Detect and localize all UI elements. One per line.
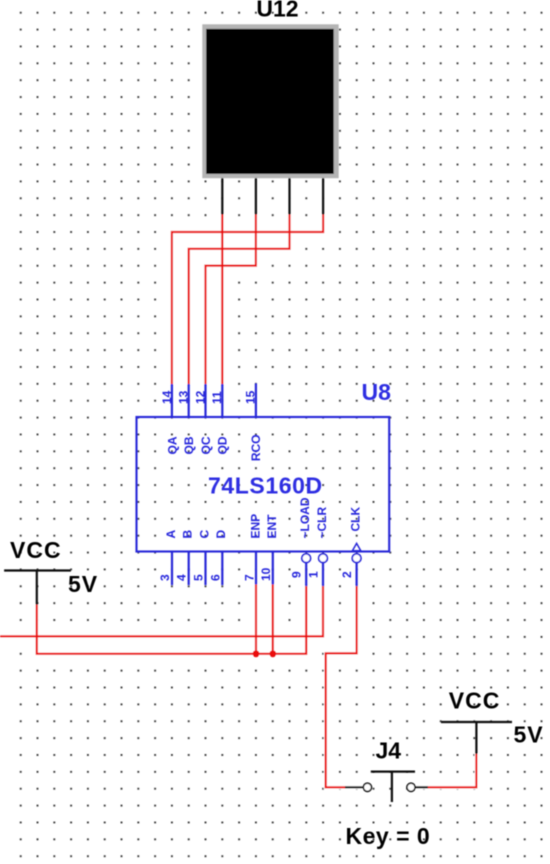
svg-text:11: 11	[210, 391, 224, 404]
svg-text:1: 1	[307, 571, 321, 578]
svg-text:J4: J4	[376, 738, 402, 764]
svg-text:2: 2	[340, 571, 354, 578]
svg-text:VCC: VCC	[10, 537, 62, 563]
svg-text:13: 13	[177, 390, 191, 404]
svg-text:6: 6	[208, 574, 222, 581]
svg-text:QD: QD	[216, 436, 230, 454]
svg-text:ENP: ENP	[249, 514, 263, 539]
svg-text:12: 12	[193, 390, 207, 404]
svg-text:C: C	[197, 530, 211, 539]
svg-text:5V: 5V	[514, 722, 544, 748]
svg-text:7: 7	[243, 574, 257, 581]
svg-text:14: 14	[160, 390, 174, 404]
svg-text:~CLR: ~CLR	[315, 506, 329, 538]
svg-text:QB: QB	[182, 436, 196, 454]
svg-text:5: 5	[191, 574, 205, 581]
svg-text:D: D	[214, 530, 228, 539]
svg-text:U8: U8	[362, 379, 392, 405]
svg-text:QC: QC	[199, 436, 213, 454]
svg-text:RCO: RCO	[249, 435, 263, 462]
svg-text:10: 10	[259, 567, 273, 581]
svg-text:5V: 5V	[68, 571, 98, 597]
svg-text:ENT: ENT	[265, 514, 279, 539]
svg-text:B: B	[181, 530, 195, 539]
svg-text:~LOAD: ~LOAD	[298, 497, 312, 538]
svg-text:74LS160D: 74LS160D	[208, 472, 323, 498]
svg-text:VCC: VCC	[449, 687, 501, 713]
svg-text:QA: QA	[165, 436, 179, 454]
svg-text:Key = 0: Key = 0	[346, 823, 431, 849]
svg-text:U12: U12	[256, 0, 298, 22]
svg-text:3: 3	[158, 574, 172, 581]
svg-text:9: 9	[290, 571, 304, 578]
svg-text:CLK: CLK	[349, 507, 363, 532]
svg-text:4: 4	[175, 574, 189, 581]
svg-text:A: A	[164, 530, 178, 539]
svg-text:15: 15	[244, 390, 258, 404]
